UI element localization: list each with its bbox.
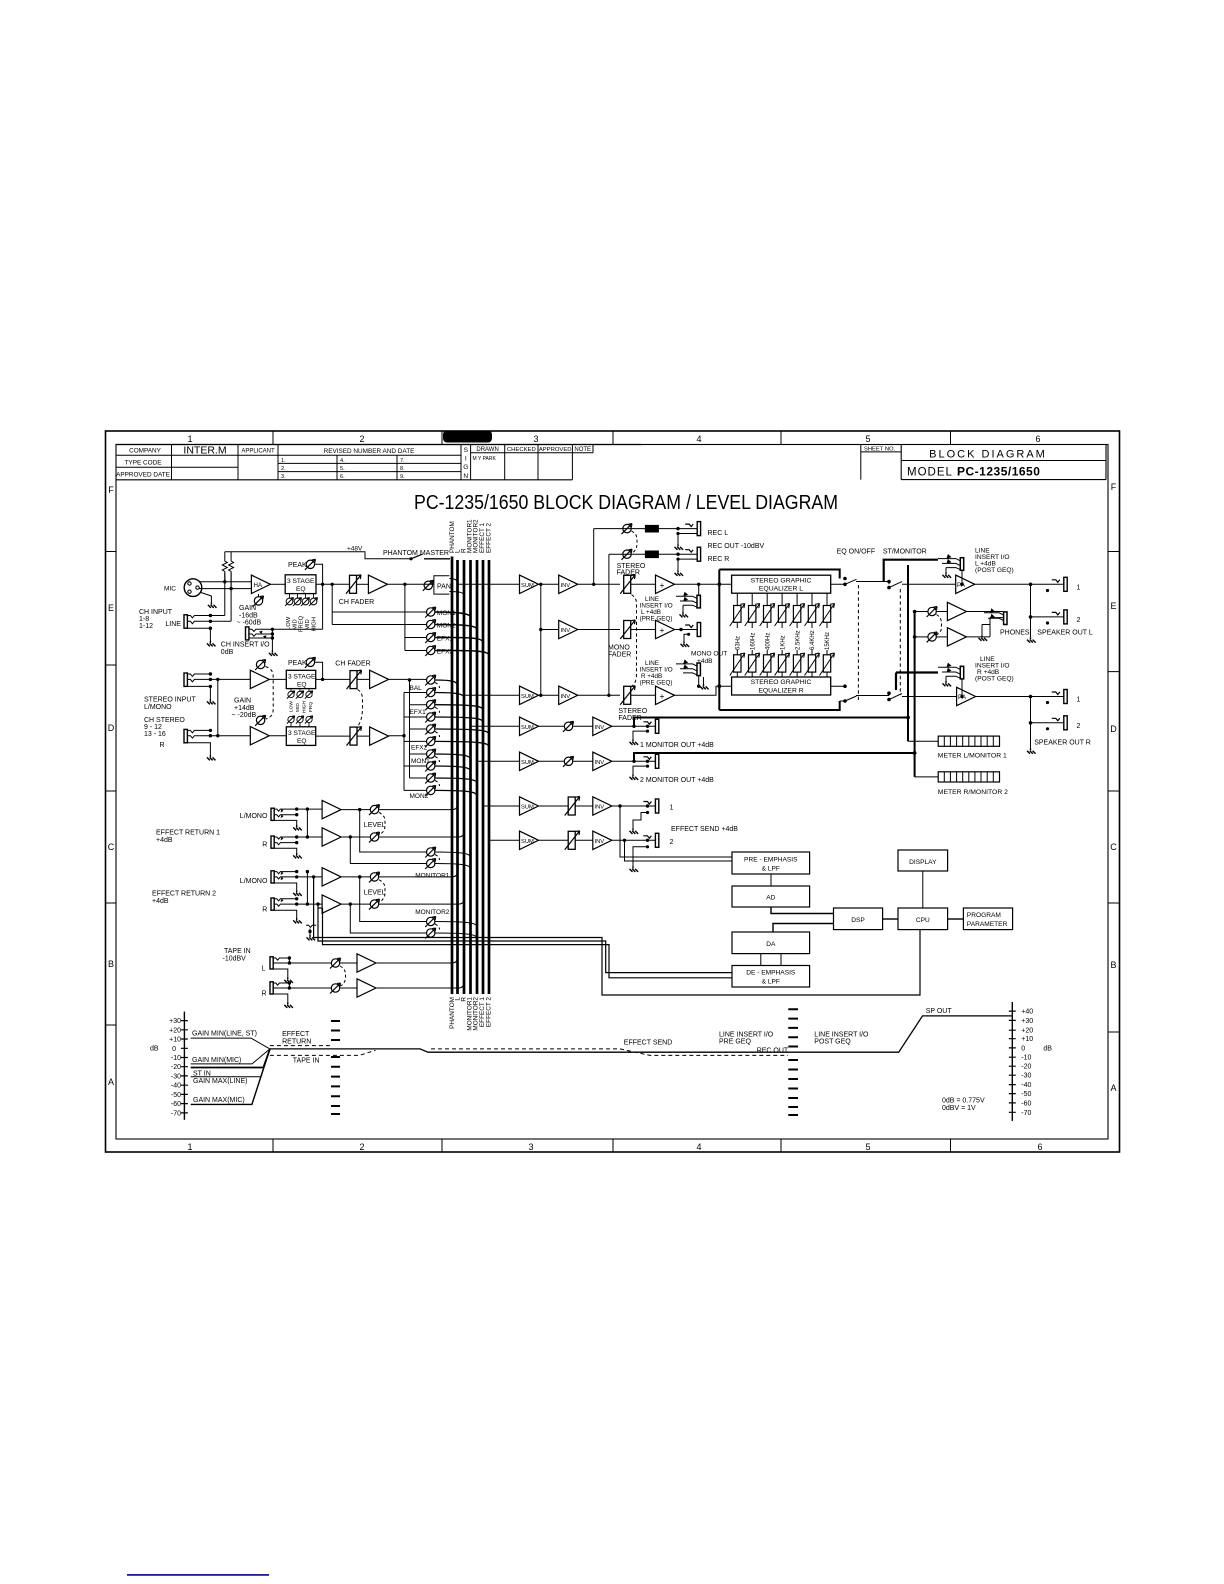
EQ switch gang dashed: [857, 585, 859, 701]
svg-text:-10dBV: -10dBV: [223, 956, 247, 963]
svg-text:dB: dB: [150, 1046, 159, 1053]
tape in L jack: [270, 957, 273, 969]
svg-text:BLOCK DIAGRAM: BLOCK DIAGRAM: [929, 448, 1047, 460]
svg-text:-50: -50: [171, 1092, 181, 1099]
svg-text:CH FADER: CH FADER: [335, 661, 370, 668]
3 stage EQ block: [285, 575, 316, 594]
gain min line st: [191, 1038, 270, 1049]
bus line R: [463, 560, 466, 994]
efx2 send knob: [425, 646, 436, 657]
R master amp: [631, 694, 656, 696]
svg-text:400Hz: 400Hz: [765, 633, 771, 650]
company rows: [116, 445, 278, 480]
svg-text:PC-1235/1650 BLOCK DIAGRAM / L: PC-1235/1650 BLOCK DIAGRAM / LEVEL DIAGR…: [414, 492, 838, 514]
svg-text:-20: -20: [1021, 1064, 1031, 1071]
svg-text:SPEAKER OUT L: SPEAKER OUT L: [1037, 630, 1093, 637]
EFX2 inv amp: [593, 831, 612, 849]
EFX2 send jack: [643, 833, 658, 847]
svg-text:R: R: [262, 841, 267, 848]
phones knob L: [915, 611, 928, 613]
svg-text:CHECKED: CHECKED: [507, 447, 536, 453]
phantom feed resistor R2: [229, 552, 234, 589]
line insert pre GEQ R jack: [697, 663, 700, 676]
svg-text:+40: +40: [1021, 1009, 1033, 1016]
EQ band labels: [286, 615, 318, 632]
svg-text:EQ: EQ: [297, 738, 307, 745]
DA to de-emphasis: [761, 954, 781, 966]
mon2 knob pair: [425, 773, 436, 784]
svg-text:A: A: [108, 1077, 114, 1087]
tape in dashed: [270, 1050, 376, 1055]
ER1 outs to bus: [379, 804, 464, 837]
L distribution vertical: [410, 680, 427, 778]
svg-text:1.: 1.: [281, 458, 286, 464]
sheet outer border: [106, 431, 1120, 1152]
svg-text:EQUALIZER L: EQUALIZER L: [759, 586, 803, 593]
mono fader: [620, 620, 635, 639]
svg-text:LINE INSERT I/O: LINE INSERT I/O: [814, 1031, 869, 1038]
bal knob pair: [425, 675, 436, 686]
PA L out to speakers: [975, 583, 1064, 585]
effect return 1 L jack: [271, 808, 274, 820]
line insert post GEQ R jack: [960, 666, 963, 679]
ER2 normal vertical: [306, 872, 308, 905]
ST/MONITOR switch L: [889, 582, 956, 588]
svg-text:G: G: [463, 464, 468, 471]
svg-text:COMPANY: COMPANY: [129, 448, 162, 455]
R distribution vertical: [404, 693, 426, 791]
svg-text:GAIN MAX(MIC): GAIN MAX(MIC): [193, 1097, 245, 1104]
svg-text:R: R: [160, 742, 165, 749]
svg-text:L/MONO: L/MONO: [144, 704, 172, 711]
effect return dashed: [270, 1045, 331, 1047]
redaction blob: [443, 431, 492, 443]
efx1 send knob: [425, 633, 436, 644]
right axis labels: [1021, 1009, 1033, 1117]
svg-text:DE - EMPHASIS: DE - EMPHASIS: [746, 970, 796, 977]
svg-text:ST/MONITOR: ST/MONITOR: [883, 549, 927, 556]
GEQ L slider 63Hz: [736, 593, 738, 605]
svg-text:-20: -20: [171, 1064, 181, 1071]
svg-text:1 MONITOR OUT +4dB: 1 MONITOR OUT +4dB: [640, 742, 714, 749]
PA amp L: [956, 575, 975, 593]
svg-text:63Hz: 63Hz: [736, 636, 742, 650]
bus line EFFECT2: [488, 560, 491, 994]
phones amp R: [936, 636, 947, 638]
channel fader: [346, 575, 361, 594]
insert riser L: [961, 570, 963, 584]
svg-text:INV: INV: [595, 839, 605, 845]
stereo L input amp: [250, 670, 269, 688]
svg-text:-16dB: -16dB: [239, 612, 258, 619]
svg-text:LINE: LINE: [165, 621, 181, 628]
DSP loop line 1: [314, 877, 920, 995]
svg-text:0: 0: [172, 1046, 176, 1053]
stereo graphic equalizer L: [732, 575, 831, 593]
right dB axis: [1011, 1002, 1013, 1121]
REC R riser: [608, 554, 610, 695]
svg-text:-70: -70: [171, 1110, 181, 1117]
L line to GEQ: [675, 583, 732, 585]
svg-text:1KHz: 1KHz: [780, 635, 786, 650]
svg-text:+10: +10: [169, 1037, 181, 1044]
svg-text:SUM: SUM: [521, 760, 534, 766]
svg-text:STEREO GRAPHIC: STEREO GRAPHIC: [751, 577, 812, 584]
stereo input jack R: [184, 729, 187, 742]
phantom master wire: [225, 552, 411, 559]
svg-text:MONITOR2: MONITOR2: [415, 909, 450, 916]
svg-text:MONO OUT: MONO OUT: [691, 651, 727, 658]
GEQ L slider 6.4KHz: [811, 593, 813, 605]
monitor1 knob b: [425, 859, 436, 870]
svg-text:~ -20dB: ~ -20dB: [232, 712, 257, 719]
svg-text:9.: 9.: [400, 474, 405, 480]
GEQ L slider 15KHz: [826, 593, 828, 605]
bus line EFFECT1: [482, 560, 485, 994]
mic wires to HA: [199, 582, 251, 589]
svg-text:M Y PARK: M Y PARK: [473, 456, 497, 462]
EFX2 master fader: [565, 831, 580, 850]
line insert pre GEQ L jack: [697, 595, 700, 608]
CPU to program parameter: [948, 918, 964, 920]
bus line PHANTOM: [451, 557, 454, 995]
stereo gain knob L: [255, 660, 266, 671]
svg-text:DISPLAY: DISPLAY: [909, 859, 937, 866]
svg-text:E: E: [108, 603, 114, 613]
stereo gain knob R: [255, 715, 266, 726]
svg-text:-70: -70: [1021, 1110, 1031, 1117]
svg-text:TAPE IN: TAPE IN: [224, 948, 251, 955]
svg-text:L: L: [262, 966, 266, 973]
tape amp R: [340, 987, 357, 989]
EFX1 master fader: [565, 797, 580, 816]
MON2 sum amp: [520, 752, 539, 770]
mono inv amp: [559, 620, 578, 638]
CPU block: [898, 908, 948, 930]
AD to DSP: [771, 907, 834, 914]
mono out jack: [675, 629, 698, 631]
svg-text:PRE GEQ: PRE GEQ: [719, 1039, 751, 1046]
svg-text:6.: 6.: [340, 474, 345, 480]
monitor2 send risers: [350, 877, 426, 933]
wire EQ to fader: [316, 583, 350, 585]
fader gang dashed: [632, 595, 637, 687]
R sum feed: [464, 694, 520, 696]
DSP loop line 2: [318, 904, 732, 973]
svg-text:APPROVED DATE: APPROVED DATE: [116, 472, 170, 479]
svg-text:GAIN MAX(LINE): GAIN MAX(LINE): [193, 1078, 247, 1085]
svg-text:6: 6: [1037, 1142, 1042, 1152]
EFX1 inv amp: [593, 797, 612, 815]
PA R out to speakers: [976, 696, 1064, 698]
svg-text:GAIN: GAIN: [239, 605, 256, 612]
ER1 level knob L: [369, 805, 380, 816]
monitor1 knob a: [425, 847, 436, 858]
svg-text:(PRE GEQ): (PRE GEQ): [640, 680, 673, 687]
GEQ R slider 2.5KHz: [796, 650, 798, 655]
svg-text:REC R: REC R: [708, 556, 730, 563]
MON2 inv amp: [593, 752, 612, 770]
svg-text:-40: -40: [1021, 1082, 1031, 1089]
svg-text:MID: MID: [305, 619, 311, 630]
svg-text:SUM: SUM: [521, 805, 534, 811]
program parameter block: [963, 908, 1012, 930]
svg-text:1-8: 1-8: [139, 616, 149, 623]
svg-text:1: 1: [187, 1142, 192, 1152]
svg-text:PROGRAM: PROGRAM: [967, 912, 1001, 919]
svg-text:-60: -60: [1021, 1100, 1031, 1107]
svg-text:+20: +20: [169, 1027, 181, 1034]
L inv out: [578, 583, 620, 585]
svg-text:NOTE: NOTE: [574, 447, 591, 453]
svg-text:BAL: BAL: [410, 685, 423, 692]
speaker R ground: [1027, 748, 1036, 753]
svg-text:R: R: [262, 906, 267, 913]
svg-text:MODEL :: MODEL :: [907, 466, 961, 478]
svg-text:EQUALIZER R: EQUALIZER R: [758, 687, 803, 694]
svg-text:MONITOR1: MONITOR1: [415, 872, 450, 879]
svg-text:PA: PA: [958, 694, 967, 701]
bottom strip column dividers: [273, 1139, 951, 1152]
svg-text:9 - 12: 9 - 12: [144, 724, 162, 731]
stereo post amps: [370, 670, 389, 688]
ER2 level knob L: [369, 872, 380, 883]
wire HA to EQ: [270, 583, 285, 585]
svg-text:MON2: MON2: [410, 793, 429, 800]
svg-text:CH INSERT I/O: CH INSERT I/O: [221, 642, 270, 649]
REC L riser: [593, 529, 595, 585]
ER2 L amp: [322, 868, 341, 886]
svg-text:+14dB: +14dB: [234, 705, 255, 712]
EFX1 sum feed: [483, 805, 520, 807]
phantom feed resistor R1: [222, 552, 227, 582]
svg-text:1: 1: [670, 805, 674, 812]
mono normal vertical: [217, 679, 219, 735]
post GEQ heavy line R: [896, 673, 938, 691]
bus line MONITOR1: [469, 560, 472, 994]
svg-text:REC OUT: REC OUT: [757, 1048, 789, 1055]
svg-text:EFFECT SEND: EFFECT SEND: [624, 1039, 673, 1046]
svg-text:+4dB: +4dB: [156, 837, 173, 844]
svg-text:2 MONITOR OUT +4dB: 2 MONITOR OUT +4dB: [640, 777, 714, 784]
bus line L: [456, 560, 459, 994]
ER1 normal vertical: [306, 809, 308, 837]
svg-text:APPROVED: APPROVED: [539, 447, 572, 453]
svg-text:CPU: CPU: [916, 917, 930, 924]
post dashed trace: [431, 1049, 788, 1056]
svg-text:PHANTOM: PHANTOM: [449, 521, 456, 553]
svg-text:LOW: LOW: [289, 701, 295, 712]
GEQ R slider 1KHz: [781, 650, 783, 655]
peak LED stereo: [305, 657, 316, 668]
svg-text:FRQ: FRQ: [308, 702, 314, 712]
gain knob: [253, 596, 264, 607]
svg-text:GAIN MIN(LINE, ST): GAIN MIN(LINE, ST): [192, 1031, 257, 1038]
svg-text:SPEAKER OUT R: SPEAKER OUT R: [1034, 740, 1091, 747]
revised grid: [278, 455, 461, 480]
svg-text:3.: 3.: [281, 474, 286, 480]
monitor feed vertical 1: [907, 565, 909, 741]
svg-text:+4dB: +4dB: [152, 898, 169, 905]
MON1 sum feed: [471, 725, 520, 727]
svg-text:PARAMETER: PARAMETER: [967, 921, 1008, 928]
monitor tap vertical: [332, 584, 426, 624]
3 stage EQ block L: [286, 670, 315, 688]
GEQ L slider 1KHz: [781, 593, 783, 605]
R sum amp: [520, 686, 539, 704]
mono master amp: [631, 629, 656, 631]
svg-text:C: C: [1110, 842, 1117, 852]
stereo fader L: [620, 575, 635, 594]
svg-text:MON1: MON1: [411, 758, 430, 765]
svg-text:HA: HA: [254, 582, 263, 589]
GEQ R slider 15KHz: [826, 650, 828, 655]
bus labels bottom: [449, 997, 493, 1031]
svg-text:C: C: [108, 842, 115, 852]
svg-text:6.4KHz: 6.4KHz: [810, 630, 816, 650]
svg-text:PRE - EMPHASIS: PRE - EMPHASIS: [744, 857, 798, 864]
svg-text:LOW: LOW: [286, 616, 292, 630]
svg-text:EFFECT RETURN 1: EFFECT RETURN 1: [156, 830, 220, 837]
meter L/monitor1: [938, 736, 999, 746]
stereo sends to bus: [435, 680, 489, 796]
svg-text:7.: 7.: [400, 458, 405, 464]
svg-text:1: 1: [1077, 697, 1081, 704]
svg-text:B: B: [108, 959, 114, 969]
DA block: [732, 932, 810, 954]
tape level knob L: [330, 958, 341, 969]
svg-text:REC L: REC L: [708, 530, 729, 537]
monitor2 knob a: [425, 917, 436, 928]
sheet inner border: [116, 445, 1108, 1140]
MON1 level knob: [563, 721, 574, 732]
svg-text:EFFECT: EFFECT: [282, 1031, 310, 1038]
svg-text:PEAK: PEAK: [288, 562, 307, 569]
mon1 knob pair: [425, 749, 436, 760]
send to bus wires: [435, 612, 489, 656]
svg-text:3: 3: [533, 434, 538, 444]
svg-text:3: 3: [528, 1142, 533, 1152]
svg-text:GAIN MIN(MIC): GAIN MIN(MIC): [192, 1057, 241, 1064]
svg-text:-30: -30: [1021, 1073, 1031, 1080]
wire fader to amp: [357, 583, 369, 585]
svg-text:DSP: DSP: [851, 917, 865, 924]
svg-text:AD: AD: [766, 895, 775, 902]
svg-text:-10: -10: [1021, 1055, 1031, 1062]
svg-text:& LPF: & LPF: [762, 866, 780, 873]
svg-text:PAD: PAD: [647, 552, 658, 558]
svg-text:PAN: PAN: [437, 583, 451, 590]
svg-text:-50: -50: [1021, 1091, 1031, 1098]
EQ bypass switch R: [831, 686, 889, 701]
svg-text:dB: dB: [1043, 1045, 1052, 1052]
drawn/checked/approved/note cells: [471, 445, 593, 480]
tape amp L: [340, 962, 357, 964]
svg-text:LEVEL: LEVEL: [364, 889, 386, 896]
tape outs to bus: [376, 957, 464, 988]
insert ground: [269, 651, 278, 656]
speaker out R jack 1: [1052, 690, 1067, 704]
svg-text:2: 2: [359, 434, 364, 444]
stereo graphic equalizer R: [732, 677, 831, 695]
L sum feed: [458, 583, 520, 585]
svg-text:PHANTOM: PHANTOM: [449, 997, 456, 1029]
pre-emph to AD: [770, 874, 772, 886]
svg-text:METER R/MONITOR 2: METER R/MONITOR 2: [938, 789, 1008, 796]
monitor1 send risers: [350, 810, 426, 864]
svg-text:APPLICANT: APPLICANT: [241, 448, 275, 454]
speaker L branch: [1031, 584, 1064, 637]
svg-text:-30: -30: [171, 1073, 181, 1080]
svg-text:TYPE CODE: TYPE CODE: [125, 460, 162, 467]
post GEQ heavy line L: [884, 560, 938, 582]
GEQ L slider 400Hz: [766, 593, 768, 605]
svg-text:1: 1: [187, 434, 192, 444]
svg-text:L/MONO: L/MONO: [240, 878, 268, 885]
svg-text:+: +: [660, 625, 665, 635]
stereo fader R: [620, 686, 635, 705]
post fader amp: [368, 575, 387, 593]
svg-text:13 - 16: 13 - 16: [144, 731, 166, 738]
REC R jack: [685, 547, 700, 561]
stereo R input amp: [250, 727, 269, 745]
REC R wire: [609, 553, 697, 555]
peak LED: [305, 559, 316, 570]
sheet no box: [861, 445, 901, 480]
MON2 out jack: [643, 754, 658, 768]
svg-text:4: 4: [696, 434, 701, 444]
svg-text:MID: MID: [295, 703, 301, 712]
svg-text:+20: +20: [1021, 1028, 1033, 1035]
ST/MONITOR switch R: [889, 694, 957, 700]
REC L jack: [685, 522, 700, 536]
svg-text:& LPF: & LPF: [762, 979, 780, 986]
svg-text:POST GEQ: POST GEQ: [814, 1039, 851, 1046]
scale break dashes left: [331, 1021, 340, 1114]
GEQ R slider 6.4KHz: [811, 650, 813, 655]
svg-text:EFX1: EFX1: [410, 709, 427, 716]
svg-text:LINE INSERT I/O: LINE INSERT I/O: [719, 1031, 774, 1038]
ER2 R amp: [322, 895, 341, 913]
svg-text:+10: +10: [1021, 1036, 1033, 1043]
svg-text:DA: DA: [766, 941, 776, 948]
svg-text:0dB = 0.775V: 0dB = 0.775V: [942, 1098, 985, 1105]
svg-text:TAPE IN: TAPE IN: [293, 1058, 320, 1065]
svg-text:PA: PA: [957, 582, 966, 589]
svg-text:SUM: SUM: [521, 839, 534, 845]
EQ knobs: [285, 598, 293, 606]
svg-text:3 STAGE: 3 STAGE: [288, 673, 316, 680]
svg-text:+30: +30: [169, 1018, 181, 1025]
display to CPU: [922, 871, 924, 908]
efx2 knob pair: [425, 724, 436, 735]
svg-text:STEREO INPUT: STEREO INPUT: [144, 697, 196, 704]
svg-text:-60: -60: [171, 1101, 181, 1108]
line input jack: [184, 615, 187, 628]
svg-text:4.: 4.: [340, 458, 345, 464]
st in level: [191, 1049, 270, 1068]
knob gang dashes: [435, 683, 440, 787]
svg-text:6: 6: [1035, 434, 1040, 444]
DSP to CPU: [883, 918, 898, 920]
MON1 out wire: [612, 725, 656, 727]
XLR ground: [201, 593, 211, 603]
ER2 mute switch jack: [306, 925, 316, 935]
right strip row dividers: [1108, 552, 1120, 1033]
tape in R jack: [270, 982, 273, 994]
phones jack: [966, 612, 1003, 637]
svg-text:+4dB: +4dB: [697, 658, 713, 665]
